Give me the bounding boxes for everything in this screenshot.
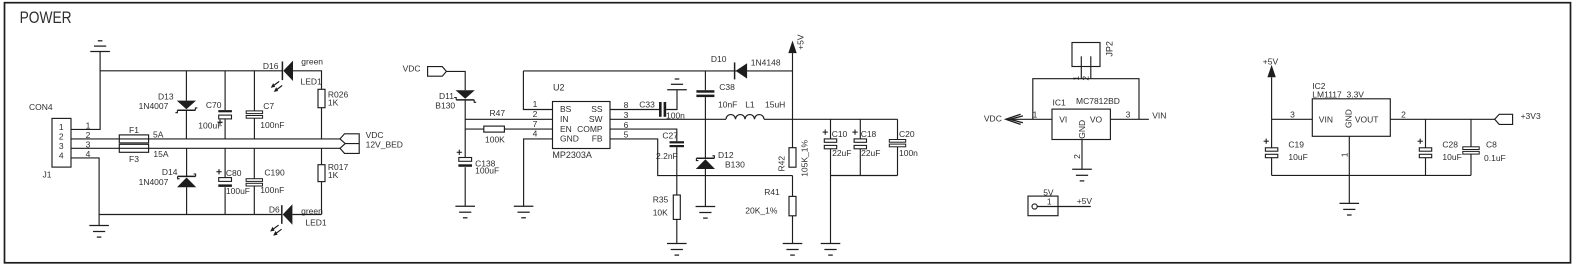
IC U2 MP2303A xyxy=(553,102,611,149)
svg-text:1: 1 xyxy=(1047,197,1052,207)
svg-text:C80: C80 xyxy=(226,168,242,178)
fuse F1 5A xyxy=(119,135,148,143)
wire IC2 GND to ground xyxy=(1348,136,1350,203)
capacitor C38 10nF bootstrap xyxy=(704,71,706,90)
ground GND7 under D12 xyxy=(696,206,716,208)
svg-text:15uH: 15uH xyxy=(765,99,785,109)
wire D16 anode to R026 xyxy=(293,71,322,90)
ground GND1 top (inverted) xyxy=(90,51,110,53)
wire bootstrap rail xyxy=(523,70,792,72)
svg-text:J1: J1 xyxy=(43,170,52,180)
output tag +3V3 xyxy=(1495,114,1513,124)
wire 5A net F1 to tag xyxy=(149,138,340,140)
svg-text:SS: SS xyxy=(591,104,603,114)
svg-text:EN: EN xyxy=(560,124,572,134)
wire SW net pin3 to L1 xyxy=(610,118,726,120)
svg-text:VOUT: VOUT xyxy=(1355,114,1379,124)
svg-text:0.1uF: 0.1uF xyxy=(1484,153,1506,163)
capacitor C20 100n xyxy=(897,119,899,139)
wire BS pin1 to bootstrap rail xyxy=(523,71,552,110)
capacitor C19 10uF xyxy=(1271,119,1273,148)
svg-text:FB: FB xyxy=(592,134,603,144)
svg-text:2: 2 xyxy=(533,109,538,119)
capacitor C10 22uF xyxy=(830,119,832,139)
svg-text:12V_BED: 12V_BED xyxy=(366,139,403,149)
svg-text:JP2: JP2 xyxy=(1105,41,1115,57)
wire FB pin5 to divider xyxy=(610,139,793,176)
svg-text:10nF: 10nF xyxy=(718,100,737,110)
LED D6 green LED1 xyxy=(281,205,283,224)
svg-text:+3V3: +3V3 xyxy=(1521,111,1541,121)
svg-text:C8: C8 xyxy=(1486,139,1497,149)
svg-text:1: 1 xyxy=(86,120,91,130)
svg-text:IC1: IC1 xyxy=(1053,98,1067,108)
svg-text:L1: L1 xyxy=(745,99,755,109)
resistor R41 20K_1% xyxy=(792,176,794,197)
svg-text:100nF: 100nF xyxy=(260,120,284,130)
inductor L1 15uH xyxy=(726,115,764,120)
wire JP2 bypass rail xyxy=(1033,79,1139,120)
svg-text:100uF: 100uF xyxy=(198,120,222,130)
fuse F3 15A xyxy=(119,144,148,152)
resistor R47 100K xyxy=(484,126,505,132)
svg-text:2: 2 xyxy=(1072,154,1082,159)
svg-text:3: 3 xyxy=(624,110,629,120)
svg-text:10uF: 10uF xyxy=(1442,152,1461,162)
svg-text:U2: U2 xyxy=(553,83,565,93)
svg-text:1: 1 xyxy=(533,99,538,109)
svg-text:F1: F1 xyxy=(129,125,139,135)
svg-text:VDC: VDC xyxy=(984,114,1002,124)
svg-text:B130: B130 xyxy=(725,159,745,169)
svg-text:1: 1 xyxy=(1071,76,1081,81)
svg-text:22uF: 22uF xyxy=(861,148,880,158)
wire L1 to output caps xyxy=(764,118,898,120)
svg-text:CON4: CON4 xyxy=(29,102,53,112)
diode D14 1N4007 xyxy=(186,148,188,176)
connector J1 CON4 xyxy=(52,118,71,167)
wire JP2 pin1 xyxy=(1080,56,1082,78)
svg-text:D13: D13 xyxy=(158,91,174,101)
wire +5V to IC2 VIN xyxy=(1272,118,1313,120)
svg-text:1K: 1K xyxy=(328,170,339,180)
capacitor C7 100nF xyxy=(253,71,255,111)
ground GND2 bottom section1 xyxy=(98,215,100,226)
resistor R35 10K xyxy=(673,195,680,219)
svg-text:20K_1%: 20K_1% xyxy=(745,205,778,215)
svg-text:100uF: 100uF xyxy=(475,166,499,176)
svg-text:4: 4 xyxy=(533,129,538,139)
wire cap bus to ground xyxy=(830,176,832,244)
svg-text:VDC: VDC xyxy=(366,130,384,140)
svg-text:10K: 10K xyxy=(653,208,668,218)
svg-text:D10: D10 xyxy=(711,54,727,64)
svg-text:C33: C33 xyxy=(639,100,655,110)
svg-text:22uF: 22uF xyxy=(832,148,851,158)
wire VIN node vertical xyxy=(464,100,466,158)
diode D10 1N4148 xyxy=(734,62,736,79)
wire ground rail top section1 xyxy=(100,70,282,72)
svg-text:100uF: 100uF xyxy=(226,186,250,196)
wire R35 to ground xyxy=(676,219,678,243)
svg-text:VO: VO xyxy=(1090,115,1103,125)
svg-text:100nF: 100nF xyxy=(260,185,284,195)
svg-text:IN: IN xyxy=(560,114,569,124)
svg-text:VIN: VIN xyxy=(1152,111,1166,121)
svg-text:7: 7 xyxy=(533,119,538,129)
wire J1 pin4 to bottom ground rail xyxy=(71,158,99,215)
svg-text:C10: C10 xyxy=(832,129,848,139)
wire R41 to ground xyxy=(792,216,794,244)
ground GND6 under R35 xyxy=(667,243,687,245)
svg-text:green: green xyxy=(301,57,323,67)
wire SS pin8 to C33 xyxy=(610,109,659,111)
svg-text:+5V: +5V xyxy=(796,34,806,50)
wire 5V connector to +5V xyxy=(1037,206,1091,208)
svg-text:100n: 100n xyxy=(899,148,918,158)
svg-text:4: 4 xyxy=(59,151,64,161)
svg-text:C70: C70 xyxy=(206,100,222,110)
svg-text:C7: C7 xyxy=(263,101,274,111)
wire IC2 VOUT to +3V3 tag xyxy=(1390,118,1494,120)
wire VDC to IC1 VI xyxy=(1006,118,1052,120)
svg-text:+5V: +5V xyxy=(1263,56,1279,66)
ground GND5 inverted above C33 xyxy=(667,89,687,91)
svg-text:D12: D12 xyxy=(718,150,734,160)
output tag VDC 12V_BED xyxy=(340,134,359,154)
svg-text:D14: D14 xyxy=(162,167,178,177)
svg-text:GND: GND xyxy=(560,134,579,144)
wire IC1 VO to VIN xyxy=(1110,118,1149,120)
capacitor C8 0.1uF xyxy=(1470,119,1472,147)
svg-text:R42: R42 xyxy=(777,156,787,172)
svg-text:1: 1 xyxy=(59,122,64,132)
svg-text:GND: GND xyxy=(1077,120,1087,139)
ground GND11 under IC2 xyxy=(1340,202,1360,204)
svg-text:5: 5 xyxy=(624,130,629,140)
wire bottom rail section4 xyxy=(1272,174,1471,176)
svg-text:1N4148: 1N4148 xyxy=(751,57,781,67)
resistor R42 105K_1% xyxy=(789,148,796,168)
svg-text:VI: VI xyxy=(1059,115,1067,125)
svg-text:C20: C20 xyxy=(899,129,915,139)
capacitor C27 2.2nF xyxy=(670,141,685,143)
svg-text:VDC: VDC xyxy=(403,64,421,74)
LED D16 green LED1 xyxy=(281,62,283,81)
svg-text:VIN: VIN xyxy=(1319,114,1333,124)
wire J1 pin1 to ground rail xyxy=(71,52,100,130)
svg-text:2: 2 xyxy=(1081,76,1091,81)
svg-text:1N4007: 1N4007 xyxy=(139,177,169,187)
svg-text:100K: 100K xyxy=(485,134,505,144)
wire IN to U2 pin2 xyxy=(465,118,552,120)
ground GND3 under C138 xyxy=(455,205,475,207)
svg-text:R41: R41 xyxy=(764,187,780,197)
ground GND4 under U2 xyxy=(514,205,534,207)
capacitor C33 100n xyxy=(659,102,662,117)
svg-text:1: 1 xyxy=(1339,152,1349,157)
svg-text:C190: C190 xyxy=(264,168,285,178)
svg-text:3: 3 xyxy=(59,141,64,151)
svg-text:C28: C28 xyxy=(1442,139,1458,149)
svg-text:B130: B130 xyxy=(435,100,455,110)
resistor R026 1K xyxy=(318,89,325,107)
wire output caps ground bus xyxy=(831,175,898,177)
svg-text:1: 1 xyxy=(1033,110,1038,120)
wire D6 anode to R017 xyxy=(292,214,321,216)
svg-text:C18: C18 xyxy=(861,129,877,139)
wire J1 pin3 to fuse F3 xyxy=(71,147,119,149)
svg-text:R47: R47 xyxy=(490,108,506,118)
svg-text:2: 2 xyxy=(1401,110,1406,120)
connector 5V single pin xyxy=(1028,196,1058,216)
svg-text:6: 6 xyxy=(624,120,629,130)
capacitor C190 100nF xyxy=(253,148,255,178)
svg-text:LED1: LED1 xyxy=(305,217,327,227)
svg-text:D6: D6 xyxy=(269,204,280,214)
svg-text:2.2nF: 2.2nF xyxy=(656,151,678,161)
wire C27 to R35 xyxy=(676,147,678,195)
wire U2 GND pin4 to ground xyxy=(524,139,553,206)
ground GND8 under R41 xyxy=(783,243,803,245)
svg-text:F3: F3 xyxy=(129,154,139,164)
connector JP2 xyxy=(1072,43,1100,67)
svg-text:C19: C19 xyxy=(1288,139,1304,149)
svg-text:105K_1%: 105K_1% xyxy=(800,139,810,176)
svg-text:C38: C38 xyxy=(719,82,735,92)
svg-text:5A: 5A xyxy=(153,129,164,139)
wire J1 pin2 to fuse F1 xyxy=(71,138,119,140)
svg-text:1N4007: 1N4007 xyxy=(139,101,169,111)
svg-text:SW: SW xyxy=(589,114,603,124)
svg-text:MP2303A: MP2303A xyxy=(552,150,592,160)
capacitor C28 10uF xyxy=(1425,119,1427,148)
resistor R017 1K xyxy=(321,148,323,164)
wire IC1 GND pin to ground xyxy=(1081,140,1083,170)
IC IC1 MC7812BD xyxy=(1052,109,1110,139)
svg-text:POWER: POWER xyxy=(20,8,72,27)
svg-text:R35: R35 xyxy=(653,195,669,205)
wire C33 to ground xyxy=(666,90,677,110)
svg-text:C27: C27 xyxy=(662,131,678,141)
wire EN node to R47 xyxy=(465,128,484,130)
svg-text:+5V: +5V xyxy=(1077,196,1093,206)
wire bottom ground rail section1 xyxy=(99,214,282,216)
ground GND9 under C10 xyxy=(821,243,841,245)
capacitor C138 100uF xyxy=(457,151,462,153)
svg-text:3: 3 xyxy=(1126,110,1131,120)
wire 15A net F3 to tag xyxy=(149,147,340,149)
IC IC2 LM1117_3.3V xyxy=(1312,99,1390,137)
svg-text:10uF: 10uF xyxy=(1288,152,1307,162)
svg-text:D16: D16 xyxy=(263,61,279,71)
wire R47 to U2 pin7 xyxy=(504,128,552,130)
diode D13 1N4007 xyxy=(185,71,187,101)
svg-text:1K: 1K xyxy=(328,97,339,107)
svg-text:MC7812BD: MC7812BD xyxy=(1076,96,1120,106)
wire COMP pin6 to C27 xyxy=(610,129,677,141)
capacitor C18 22uF xyxy=(859,119,861,139)
ground GND10 under IC1 xyxy=(1072,168,1092,170)
svg-text:GND: GND xyxy=(1344,109,1354,128)
svg-text:3: 3 xyxy=(1290,110,1295,120)
wire JP2 pin2 xyxy=(1090,56,1092,78)
svg-text:8: 8 xyxy=(624,100,629,110)
capacitor C80 100uF xyxy=(224,148,226,177)
svg-text:BS: BS xyxy=(560,104,572,114)
power arrow +5V xyxy=(788,41,796,54)
diode D11 B130 xyxy=(456,90,475,99)
wire VDC tag to D11 xyxy=(446,71,465,90)
svg-text:15A: 15A xyxy=(153,149,168,159)
capacitor C70 100uF xyxy=(224,71,226,110)
svg-text:COMP: COMP xyxy=(577,124,603,134)
diode D12 B130 xyxy=(704,119,706,158)
svg-text:LED1: LED1 xyxy=(301,76,323,86)
svg-text:LM1117_3.3V: LM1117_3.3V xyxy=(1312,89,1364,99)
